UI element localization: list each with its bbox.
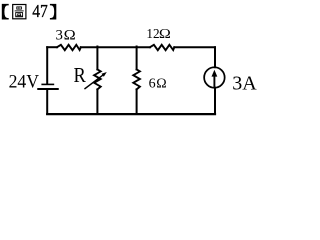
svg-text:24V: 24V: [9, 71, 39, 91]
svg-text:6: 6: [149, 76, 156, 91]
svg-text:Ω: Ω: [159, 27, 171, 42]
svg-text:47: 47: [32, 1, 48, 21]
svg-text:3: 3: [56, 28, 63, 44]
svg-text:12: 12: [146, 26, 159, 41]
svg-text:R: R: [74, 65, 87, 87]
svg-text:3A: 3A: [232, 72, 257, 94]
svg-text:Ω: Ω: [64, 27, 76, 43]
svg-text:Ω: Ω: [156, 76, 166, 91]
